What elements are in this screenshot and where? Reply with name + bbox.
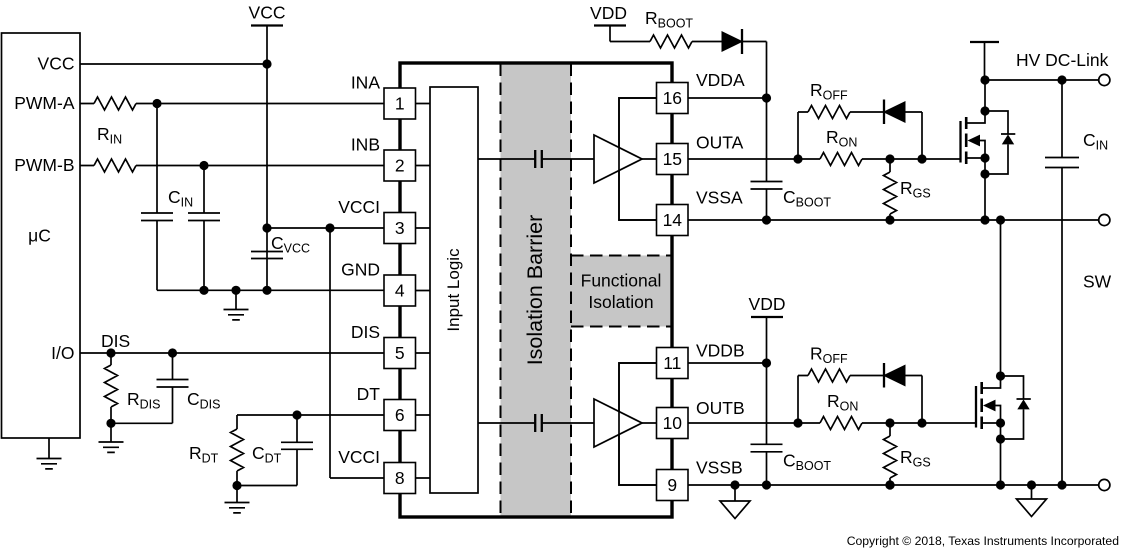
- svg-text:DIS: DIS: [101, 331, 130, 351]
- svg-text:INB: INB: [351, 135, 380, 155]
- svg-text:PWM-B: PWM-B: [14, 155, 74, 175]
- svg-text:4: 4: [395, 281, 405, 301]
- svg-text:DIS: DIS: [351, 322, 380, 342]
- svg-text:VDD: VDD: [749, 294, 786, 314]
- svg-text:2: 2: [395, 156, 405, 176]
- svg-text:INA: INA: [351, 73, 381, 93]
- svg-text:3: 3: [395, 218, 405, 238]
- svg-text:8: 8: [395, 468, 405, 488]
- svg-text:14: 14: [663, 210, 683, 230]
- svg-text:VCCI: VCCI: [338, 197, 380, 217]
- svg-text:5: 5: [395, 343, 405, 363]
- svg-text:I/O: I/O: [51, 343, 74, 363]
- svg-text:GND: GND: [341, 260, 380, 280]
- svg-text:10: 10: [663, 413, 683, 433]
- svg-text:SW: SW: [1083, 272, 1112, 292]
- svg-text:Copyright © 2018, Texas Instru: Copyright © 2018, Texas Instruments Inco…: [847, 534, 1119, 548]
- svg-text:Isolation Barrier: Isolation Barrier: [523, 215, 547, 366]
- svg-text:HV DC-Link: HV DC-Link: [1016, 50, 1109, 70]
- svg-text:Input Logic: Input Logic: [444, 248, 463, 332]
- svg-text:VDDA: VDDA: [696, 70, 745, 90]
- svg-text:VCCI: VCCI: [338, 447, 380, 467]
- svg-text:VCC: VCC: [249, 3, 286, 23]
- svg-text:VSSA: VSSA: [696, 188, 743, 208]
- svg-text:VDDB: VDDB: [696, 341, 745, 361]
- svg-text:VSSB: VSSB: [696, 458, 743, 478]
- svg-text:OUTA: OUTA: [696, 133, 744, 153]
- svg-text:μC: μC: [28, 226, 51, 246]
- svg-text:Functional: Functional: [581, 271, 662, 291]
- svg-text:PWM-A: PWM-A: [14, 93, 75, 113]
- svg-text:6: 6: [395, 405, 405, 425]
- svg-text:11: 11: [663, 353, 681, 373]
- svg-text:15: 15: [663, 149, 682, 169]
- svg-text:VDD: VDD: [590, 3, 627, 23]
- svg-text:9: 9: [667, 475, 677, 495]
- svg-text:OUTB: OUTB: [696, 398, 745, 418]
- svg-text:Isolation: Isolation: [588, 292, 653, 312]
- svg-text:DT: DT: [357, 384, 381, 404]
- svg-text:16: 16: [663, 88, 682, 108]
- svg-text:VCC: VCC: [38, 54, 75, 74]
- svg-text:1: 1: [395, 94, 405, 114]
